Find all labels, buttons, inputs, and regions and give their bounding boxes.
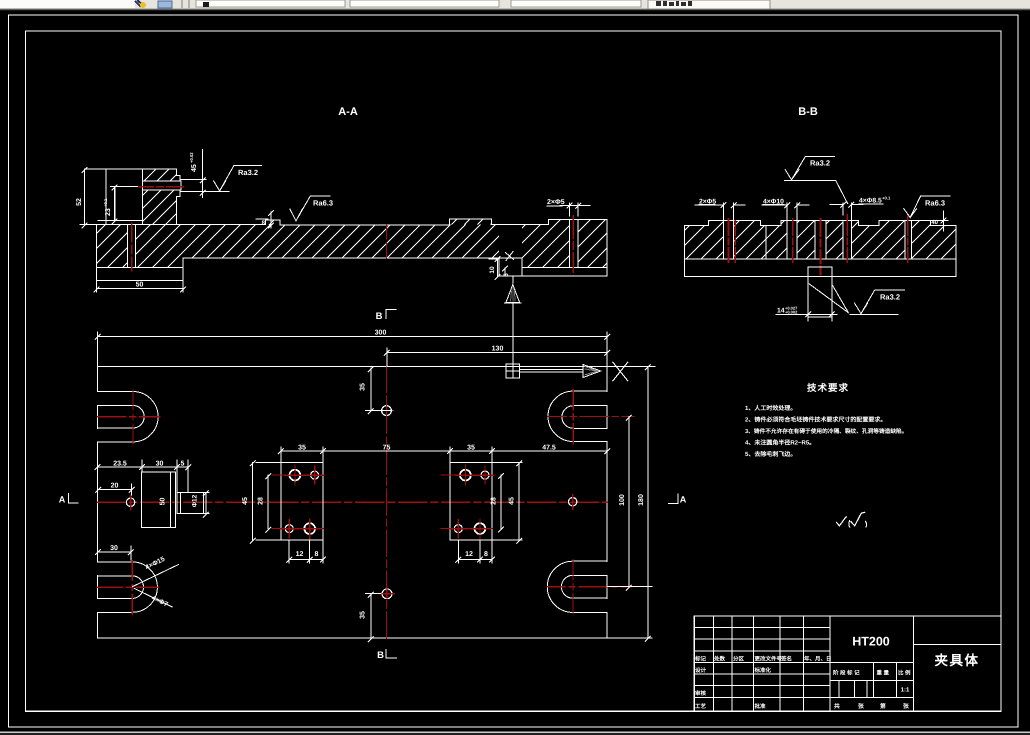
X mark <box>613 362 628 380</box>
BB dim 4xPhi8.5 <box>830 196 891 221</box>
toolbar strip <box>0 0 1030 11</box>
svg-text:分区: 分区 <box>733 656 745 663</box>
svg-text:35: 35 <box>467 444 475 451</box>
left hole phi12 <box>126 495 134 510</box>
svg-text:Ra3.2: Ra3.2 <box>880 293 900 302</box>
svg-text:张: 张 <box>903 703 909 710</box>
dim 52 <box>76 168 106 229</box>
svg-text:HT200: HT200 <box>852 635 890 649</box>
slab hatched: foot left of hole <box>97 225 128 268</box>
dim 2xPhi5 right <box>547 199 590 216</box>
svg-text:A: A <box>680 495 687 505</box>
main vertical red centerline <box>386 366 388 638</box>
title block outer <box>694 616 1001 711</box>
BB hatched slab segment 2 <box>734 221 767 259</box>
svg-text:B: B <box>376 311 383 322</box>
slab hatched: right block left of hole <box>522 220 570 268</box>
svg-text:Ra6.3: Ra6.3 <box>313 199 333 208</box>
BB hatched slab segment 7 <box>912 221 956 259</box>
dim 35 bottom center hole <box>360 592 382 642</box>
slab left edge and foot pad <box>97 225 183 281</box>
svg-text:批准: 批准 <box>755 703 767 710</box>
surface finish summary marks <box>836 512 866 528</box>
dim 50 under foot <box>94 280 185 292</box>
BB hatched slab segment 4 <box>797 221 815 259</box>
slab hatched: foot right of hole <box>136 225 183 268</box>
bottom status strip <box>0 732 1030 733</box>
svg-text:4、未注圆角半径R2~R5。: 4、未注圆角半径R2~R5。 <box>745 439 815 447</box>
svg-text:47.5: 47.5 <box>542 444 556 451</box>
row4 text <box>694 656 832 663</box>
right hole <box>569 495 577 510</box>
section B arrow up <box>505 276 522 364</box>
svg-text:签名: 签名 <box>780 656 792 663</box>
main horizontal red centerline <box>98 501 608 503</box>
dims 28 45 right <box>490 461 522 544</box>
row5 text <box>695 667 772 674</box>
bottom row <box>834 702 909 710</box>
title block left grid horizontals <box>694 628 913 698</box>
svg-text:5: 5 <box>503 273 510 277</box>
svg-text:12: 12 <box>465 551 473 558</box>
svg-text:技术要求: 技术要求 <box>807 382 849 394</box>
center hole top <box>379 403 394 418</box>
BB hatched slab segment 3 <box>766 221 787 259</box>
svg-text:50: 50 <box>136 282 144 289</box>
label B top of plan <box>376 310 396 322</box>
svg-text:8: 8 <box>314 551 318 558</box>
svg-text:12: 12 <box>296 551 304 558</box>
plan left edge with slot gaps <box>97 366 99 638</box>
BB hole red centerlines <box>728 219 730 262</box>
svg-text:40: 40 <box>931 219 938 226</box>
svg-text:45: 45 <box>509 497 516 505</box>
svg-text:重 量: 重 量 <box>877 670 890 677</box>
svg-text:审核: 审核 <box>695 690 707 697</box>
svg-text:4×Φ8.5: 4×Φ8.5 <box>859 198 882 205</box>
svg-text:52: 52 <box>76 198 83 206</box>
surface finish Ra6.3 on slab <box>290 196 333 221</box>
BB body sides and bottom plate <box>685 225 956 276</box>
svg-text:180: 180 <box>638 494 645 506</box>
BB Ra3.2 top symbol with leader <box>785 156 848 203</box>
svg-text:28: 28 <box>258 497 265 505</box>
bolt rect right <box>441 462 494 540</box>
svg-text:130: 130 <box>492 346 504 353</box>
dim 10 and 5 at notch <box>489 252 514 280</box>
svg-text:夹具体: 夹具体 <box>935 653 980 668</box>
svg-text:300: 300 <box>375 330 387 337</box>
tab1 hatch <box>266 220 281 225</box>
svg-text:+0.1: +0.1 <box>882 196 891 201</box>
BB hatched slab segment 6 <box>851 221 904 259</box>
svg-text:标记: 标记 <box>694 656 707 663</box>
svg-text:处数: 处数 <box>713 656 726 663</box>
svg-text:35: 35 <box>360 611 367 619</box>
dims 12 8 left bottom <box>287 540 326 563</box>
BB dim 40 right <box>930 211 956 231</box>
center hole bottom <box>380 586 395 601</box>
svg-text:标准化: 标准化 <box>754 667 772 674</box>
svg-text:75: 75 <box>383 444 391 451</box>
svg-text:20: 20 <box>111 483 119 490</box>
svg-text:+0.1: +0.1 <box>103 198 108 207</box>
svg-text:30: 30 <box>156 460 164 467</box>
slot top-right <box>548 390 634 444</box>
svg-text:阶 段 标 记: 阶 段 标 记 <box>833 670 860 677</box>
leader 4xPhi15 <box>133 556 179 587</box>
tab2 hatch <box>449 219 491 225</box>
datum arrowhead <box>583 365 601 378</box>
svg-text:28: 28 <box>490 497 497 505</box>
svg-text:年、月、日: 年、月、日 <box>804 656 832 663</box>
dim 35 top center hole <box>360 367 392 414</box>
boss slot red centerline <box>139 186 183 188</box>
dim 130 <box>384 346 609 367</box>
slot bottom-right <box>547 560 632 614</box>
dim 30 bottom-left slot <box>96 545 134 560</box>
svg-text:45: 45 <box>191 164 198 172</box>
slot bottom-left <box>97 560 158 614</box>
dims 12 8 right bottom <box>456 540 495 563</box>
svg-text:设计: 设计 <box>695 667 707 674</box>
svg-text:Φ12: Φ12 <box>192 494 199 507</box>
label A right <box>669 494 687 505</box>
boss hatched body <box>142 169 181 225</box>
dim 100 right <box>607 415 652 590</box>
BB dim 14 tolerance <box>776 306 837 322</box>
BB dim 4xPhi10 <box>762 198 809 220</box>
left clamp block <box>142 472 176 527</box>
svg-text:共: 共 <box>834 703 840 710</box>
svg-text:B-B: B-B <box>798 106 818 118</box>
dim 23+0.1 <box>103 185 117 224</box>
right cell divider <box>914 644 1001 646</box>
svg-text:第: 第 <box>880 702 886 710</box>
plan right edge with slot gaps <box>606 366 608 638</box>
BB dim 2xPhi5 <box>695 198 745 225</box>
section trace red line mid slab <box>386 225 388 258</box>
slab hatched: right block right of hole <box>578 220 607 268</box>
svg-text:45: 45 <box>242 497 249 505</box>
stage row <box>833 670 911 677</box>
svg-text:Ra3.2: Ra3.2 <box>238 168 258 177</box>
svg-text:张: 张 <box>858 703 864 710</box>
title block left grid verticals <box>713 616 913 711</box>
BB hatched slab segment 5 <box>826 221 843 259</box>
dims 45 28 left <box>242 461 281 544</box>
bolt rect left <box>272 462 324 540</box>
svg-text:14: 14 <box>777 308 785 315</box>
dim 20 <box>96 483 134 495</box>
foot hole red centerline <box>131 224 133 271</box>
dims 23.5 30 5 <box>95 460 191 492</box>
dims 35 75 35 47.5 top row <box>278 444 609 462</box>
row7 row8 text <box>695 690 766 710</box>
dim 45+0.02 <box>180 150 229 198</box>
svg-text:1:1: 1:1 <box>901 687 910 694</box>
svg-text:2×Φ5: 2×Φ5 <box>547 199 565 206</box>
svg-text:比 例: 比 例 <box>898 670 911 677</box>
svg-text:Ra6.3: Ra6.3 <box>925 198 945 207</box>
svg-text:Ra3.2: Ra3.2 <box>810 159 830 168</box>
BB hatched slab segment 1 <box>685 221 724 259</box>
svg-text:10: 10 <box>489 266 496 274</box>
left small block phi12 <box>177 491 209 517</box>
slab top edge with tabs <box>97 219 608 225</box>
svg-text:B: B <box>377 650 384 661</box>
svg-text:23.5: 23.5 <box>113 460 127 467</box>
datum arrow shaft <box>519 369 583 372</box>
leader 4xPhi7 <box>134 588 172 608</box>
datum square with cross <box>506 364 519 378</box>
svg-text:5、去除毛刺飞边。: 5、去除毛刺飞边。 <box>745 450 796 458</box>
slot top-left <box>98 390 160 444</box>
plan outline top and bottom <box>98 366 608 638</box>
surface finish Ra3.2 on boss <box>214 166 262 191</box>
svg-text:30: 30 <box>110 545 118 552</box>
svg-text:A-A: A-A <box>338 106 358 118</box>
BB top profile <box>685 221 956 226</box>
svg-text:100: 100 <box>619 494 626 506</box>
BB Ra6.3 right symbol <box>904 196 950 217</box>
svg-text:更改文件号: 更改文件号 <box>755 656 783 663</box>
boss recess <box>98 187 142 221</box>
svg-text:A: A <box>59 495 66 505</box>
dim 180 right <box>607 365 655 642</box>
tiny dim at tab1 <box>256 211 274 229</box>
BB lower block <box>808 267 848 317</box>
dim 300 <box>95 330 610 367</box>
svg-text:工艺: 工艺 <box>695 703 707 710</box>
svg-text:23: 23 <box>105 208 112 216</box>
svg-text:3、铸件不允许存在有碍于使用的冷隔、裂纹、孔洞等铸造缺陷。: 3、铸件不允许存在有碍于使用的冷隔、裂纹、孔洞等铸造缺陷。 <box>745 428 907 435</box>
svg-text:50: 50 <box>160 498 167 506</box>
boss left wall outline <box>106 169 142 225</box>
BB inner joint lines <box>724 221 912 259</box>
BB Ra3.2 bottom symbol <box>850 290 904 314</box>
slab hatched: middle span <box>183 225 499 259</box>
svg-text:5: 5 <box>181 460 185 467</box>
slab bottom mid <box>183 220 607 277</box>
svg-text:+0.02: +0.02 <box>189 152 194 163</box>
svg-text:35: 35 <box>298 444 306 451</box>
foot hole edges <box>128 225 136 268</box>
svg-text:1、人工时效处理。: 1、人工时效处理。 <box>745 404 796 412</box>
label A left <box>59 494 78 505</box>
svg-text:35: 35 <box>360 383 367 391</box>
right boss hole edges <box>570 220 579 268</box>
svg-text:2、铸件必须符合毛坯铸件技术要求尺寸的配置要求。: 2、铸件必须符合毛坯铸件技术要求尺寸的配置要求。 <box>745 416 886 424</box>
svg-text:+0.002: +0.002 <box>785 310 798 315</box>
svg-text:8: 8 <box>484 551 488 558</box>
label B bottom <box>377 649 396 661</box>
right boss hole red centerline <box>572 216 574 272</box>
